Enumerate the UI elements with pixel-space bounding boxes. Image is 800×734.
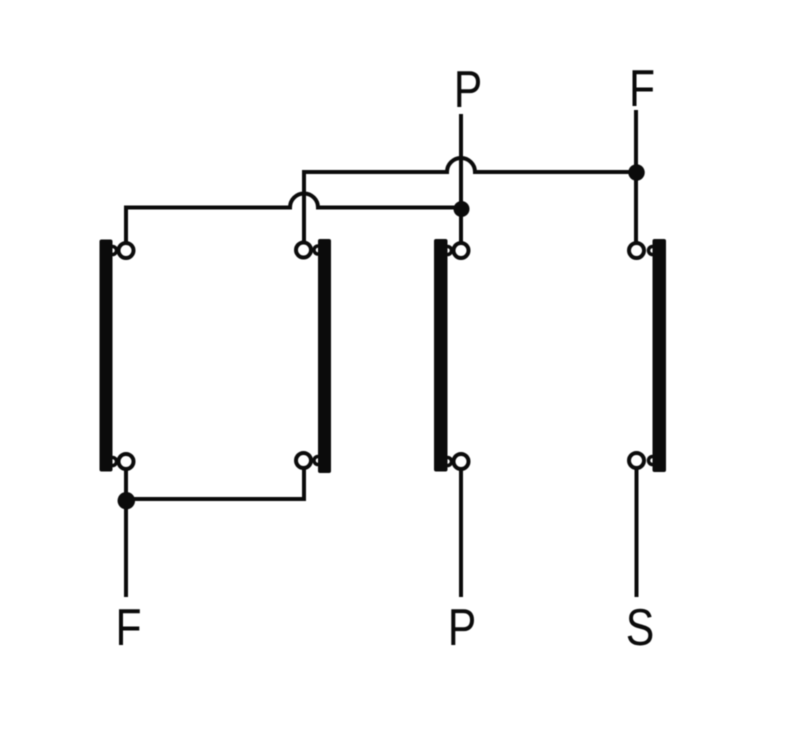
terminal bump: winding 4 top [649, 247, 657, 255]
terminal bump: winding 1 top [109, 247, 117, 255]
winding bar 2 (field coil) [318, 239, 331, 473]
winding bar 3 (coil at P) [434, 239, 448, 472]
winding bar 1 (field coil) [100, 240, 113, 472]
terminal circle: winding 2 bottom [296, 453, 311, 468]
junction node: P lead and lower horizontal [454, 201, 470, 217]
wire: upper horizontal from winding 2 top to F lead, with hop over P lead [304, 158, 636, 242]
wire: S bottom lead vertical [635, 469, 639, 597]
wire: bottom link from node to winding 2 bottom [126, 469, 304, 499]
junction node: bottom left at F lead [118, 492, 136, 510]
terminal bump: winding 2 bottom [314, 457, 322, 465]
label F (top) [633, 70, 654, 106]
terminal circle: winding 4 bottom [629, 453, 644, 468]
label P (top) [457, 71, 480, 107]
terminal bump: winding 3 bottom [444, 458, 452, 466]
wire: F top lead vertical [634, 110, 638, 242]
terminal bump: winding 3 top [444, 247, 452, 255]
terminal circle: winding 2 top [296, 243, 311, 258]
label F (bottom) [119, 609, 140, 645]
terminal circle: winding 3 bottom [454, 454, 469, 469]
wire: lower horizontal from winding 1 top to P lead, with hop over winding-2 riser [126, 194, 461, 242]
terminal circle: winding 3 top [454, 243, 469, 258]
terminal bump: winding 4 bottom [649, 457, 657, 465]
label S (bottom) [628, 609, 653, 646]
terminal circle: winding 4 top [629, 243, 644, 258]
terminal circle: winding 1 bottom [119, 454, 134, 469]
terminal circle: winding 1 top [119, 243, 134, 258]
wire: winding 1 bottom lead down to F terminal [124, 470, 128, 597]
terminal bump: winding 1 bottom [109, 458, 117, 466]
wire: P top lead vertical [459, 114, 463, 242]
terminal bump: winding 2 top [314, 246, 322, 254]
wire: P bottom lead vertical [459, 470, 463, 597]
junction node: F lead and upper horizontal [628, 164, 645, 181]
winding bar 4 (coil at S) [653, 239, 667, 472]
label P (bottom) [451, 609, 474, 645]
